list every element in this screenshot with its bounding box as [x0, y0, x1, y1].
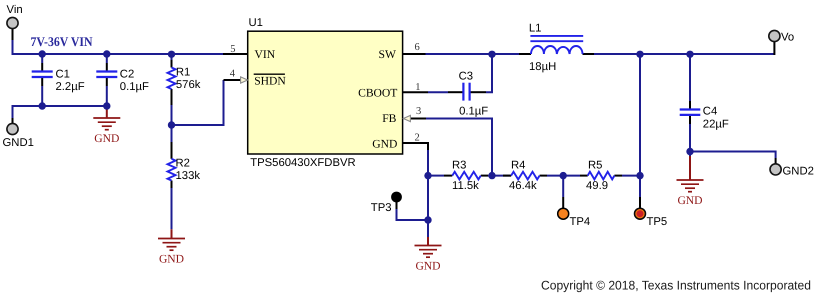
inductor L1 — [529, 23, 583, 74]
svg-text:6: 6 — [415, 42, 420, 53]
svg-text:L1: L1 — [529, 23, 542, 35]
ground below C2 — [93, 118, 120, 145]
svg-text:R1: R1 — [176, 66, 190, 78]
svg-text:C3: C3 — [459, 71, 473, 83]
op-amp U1 TPS560430XFDBVR box — [248, 17, 403, 169]
svg-text:2: 2 — [415, 132, 420, 143]
node GND1 terminal — [3, 123, 34, 149]
pin 4 SHDN — [230, 68, 287, 87]
resistor R3 — [452, 160, 481, 193]
node R3 left junction — [424, 172, 431, 179]
node C1 top junction — [39, 50, 46, 57]
svg-text:18µH: 18µH — [529, 61, 556, 73]
node TP4 test point — [558, 208, 591, 228]
svg-text:C4: C4 — [703, 105, 717, 117]
svg-text:0.1µF: 0.1µF — [459, 105, 488, 117]
svg-text:3: 3 — [416, 106, 421, 117]
wire feedback row R3 — [428, 175, 511, 177]
node SW out junction — [636, 51, 643, 58]
node GND2 terminal — [770, 164, 814, 178]
ground below R2 — [158, 239, 185, 266]
svg-text:C1: C1 — [56, 68, 70, 80]
node C4 top junction — [686, 51, 693, 58]
svg-text:Copyright © 2018, Texas Instru: Copyright © 2018, Texas Instruments Inco… — [541, 279, 811, 293]
svg-text:2.2µF: 2.2µF — [56, 81, 85, 93]
wire Vo lead — [773, 42, 775, 56]
wire C2 branch — [106, 54, 108, 106]
node TP3 test point — [371, 192, 402, 215]
svg-text:R5: R5 — [588, 160, 602, 172]
svg-text:GND2: GND2 — [783, 165, 814, 177]
svg-text:C2: C2 — [120, 68, 134, 80]
pin 1 CBOOT — [358, 82, 420, 100]
svg-text:5: 5 — [230, 44, 235, 55]
svg-text:R4: R4 — [511, 160, 525, 172]
wire C4 ground stem — [689, 152, 691, 181]
node C2 top junction — [103, 50, 110, 57]
svg-text:TP3: TP3 — [371, 202, 392, 214]
wire C2 ground stem — [106, 106, 108, 118]
svg-text:49.9: 49.9 — [586, 180, 608, 192]
svg-text:Vin: Vin — [7, 4, 23, 16]
wire C4 branch — [689, 54, 691, 152]
svg-text:GND: GND — [677, 194, 702, 207]
svg-text:VIN: VIN — [255, 48, 276, 61]
pin 5 VIN — [230, 44, 275, 61]
wire bottom rail — [12, 105, 107, 107]
node FB divider junction — [488, 172, 495, 179]
wire TP3 node to ground — [427, 176, 429, 246]
wire feedback row R5 — [580, 175, 640, 177]
svg-text:TP4: TP4 — [570, 216, 591, 228]
capacitor C3 — [459, 71, 489, 118]
node Vo terminal — [769, 30, 794, 43]
node R1-R2-SHDN junction — [168, 121, 175, 128]
wire Vin vertical — [12, 29, 14, 56]
node TP5 test point — [635, 208, 668, 228]
resistor R2 — [168, 157, 201, 182]
wire GND pin trace — [403, 143, 428, 176]
pin 2 GND — [372, 132, 419, 150]
wire feedback row R4 — [503, 175, 580, 177]
svg-text:GND: GND — [372, 137, 397, 150]
svg-text:46.4k: 46.4k — [509, 180, 537, 192]
wire GND1 vertical — [12, 105, 14, 124]
resistor R1 — [168, 66, 201, 91]
svg-text:U1: U1 — [249, 17, 263, 29]
node SW-C3 junction — [488, 51, 495, 58]
wire SHDN trace — [172, 80, 241, 125]
capacitor C4 — [680, 105, 729, 130]
ground below C4 — [677, 180, 704, 207]
svg-text:GND1: GND1 — [3, 137, 34, 149]
svg-text:CBOOT: CBOOT — [358, 87, 397, 100]
svg-text:FB: FB — [382, 112, 396, 125]
svg-text:R3: R3 — [452, 160, 466, 172]
svg-text:1: 1 — [415, 82, 420, 93]
svg-text:SHDN: SHDN — [254, 75, 286, 88]
svg-text:TPS560430XFDBVR: TPS560430XFDBVR — [250, 157, 356, 169]
wire C1 branch — [41, 54, 43, 106]
svg-text:R2: R2 — [176, 157, 190, 169]
svg-text:133k: 133k — [176, 170, 201, 182]
svg-text:11.5k: 11.5k — [452, 180, 479, 192]
wire TP5 drop — [639, 176, 641, 209]
wire GND2 trace — [690, 151, 776, 164]
node Vin terminal — [7, 4, 23, 28]
node R1 top junction — [168, 51, 175, 58]
node C2 bottom junction — [103, 102, 110, 109]
svg-text:22µF: 22µF — [703, 118, 729, 130]
wire L1 to Vo rail — [583, 53, 775, 55]
wire R1 branch — [171, 54, 173, 125]
wire TP4 drop — [562, 176, 564, 209]
wire R2 branch — [171, 125, 173, 239]
node R4-R5-TP4 junction — [560, 172, 567, 179]
resistor R5 — [586, 160, 614, 193]
svg-text:SW: SW — [379, 48, 396, 61]
wire VIN top rail — [12, 53, 248, 55]
wire SW rail — [403, 53, 531, 55]
node TP3 net junction — [424, 216, 431, 223]
svg-text:GND: GND — [94, 132, 119, 145]
svg-text:4: 4 — [230, 68, 236, 79]
node R5-TP5 junction — [636, 172, 643, 179]
wire TP3 trace — [397, 202, 429, 220]
wire C3 right lead — [470, 55, 492, 92]
svg-text:TP5: TP5 — [647, 216, 668, 228]
node C4 bottom junction — [686, 148, 693, 155]
svg-text:GND: GND — [415, 260, 440, 273]
copyright note — [541, 279, 811, 293]
wire FB trace — [411, 119, 493, 176]
node VIN net label — [31, 34, 93, 49]
svg-text:7V-36V VIN: 7V-36V VIN — [31, 34, 93, 49]
svg-text:Vo: Vo — [781, 32, 794, 44]
ground below TP3 — [415, 246, 442, 273]
resistor R4 — [509, 160, 540, 193]
node C1 bottom junction — [39, 102, 46, 109]
wire SW node to R5 vertical — [639, 54, 641, 176]
svg-text:576k: 576k — [176, 79, 201, 91]
svg-text:GND: GND — [159, 253, 184, 266]
pin 3 FB — [382, 106, 421, 125]
svg-text:0.1µF: 0.1µF — [120, 81, 149, 93]
pin 6 SW — [379, 42, 420, 61]
capacitor C2 — [96, 68, 149, 93]
wire CBOOT stub — [403, 91, 463, 93]
capacitor C1 — [32, 68, 85, 93]
